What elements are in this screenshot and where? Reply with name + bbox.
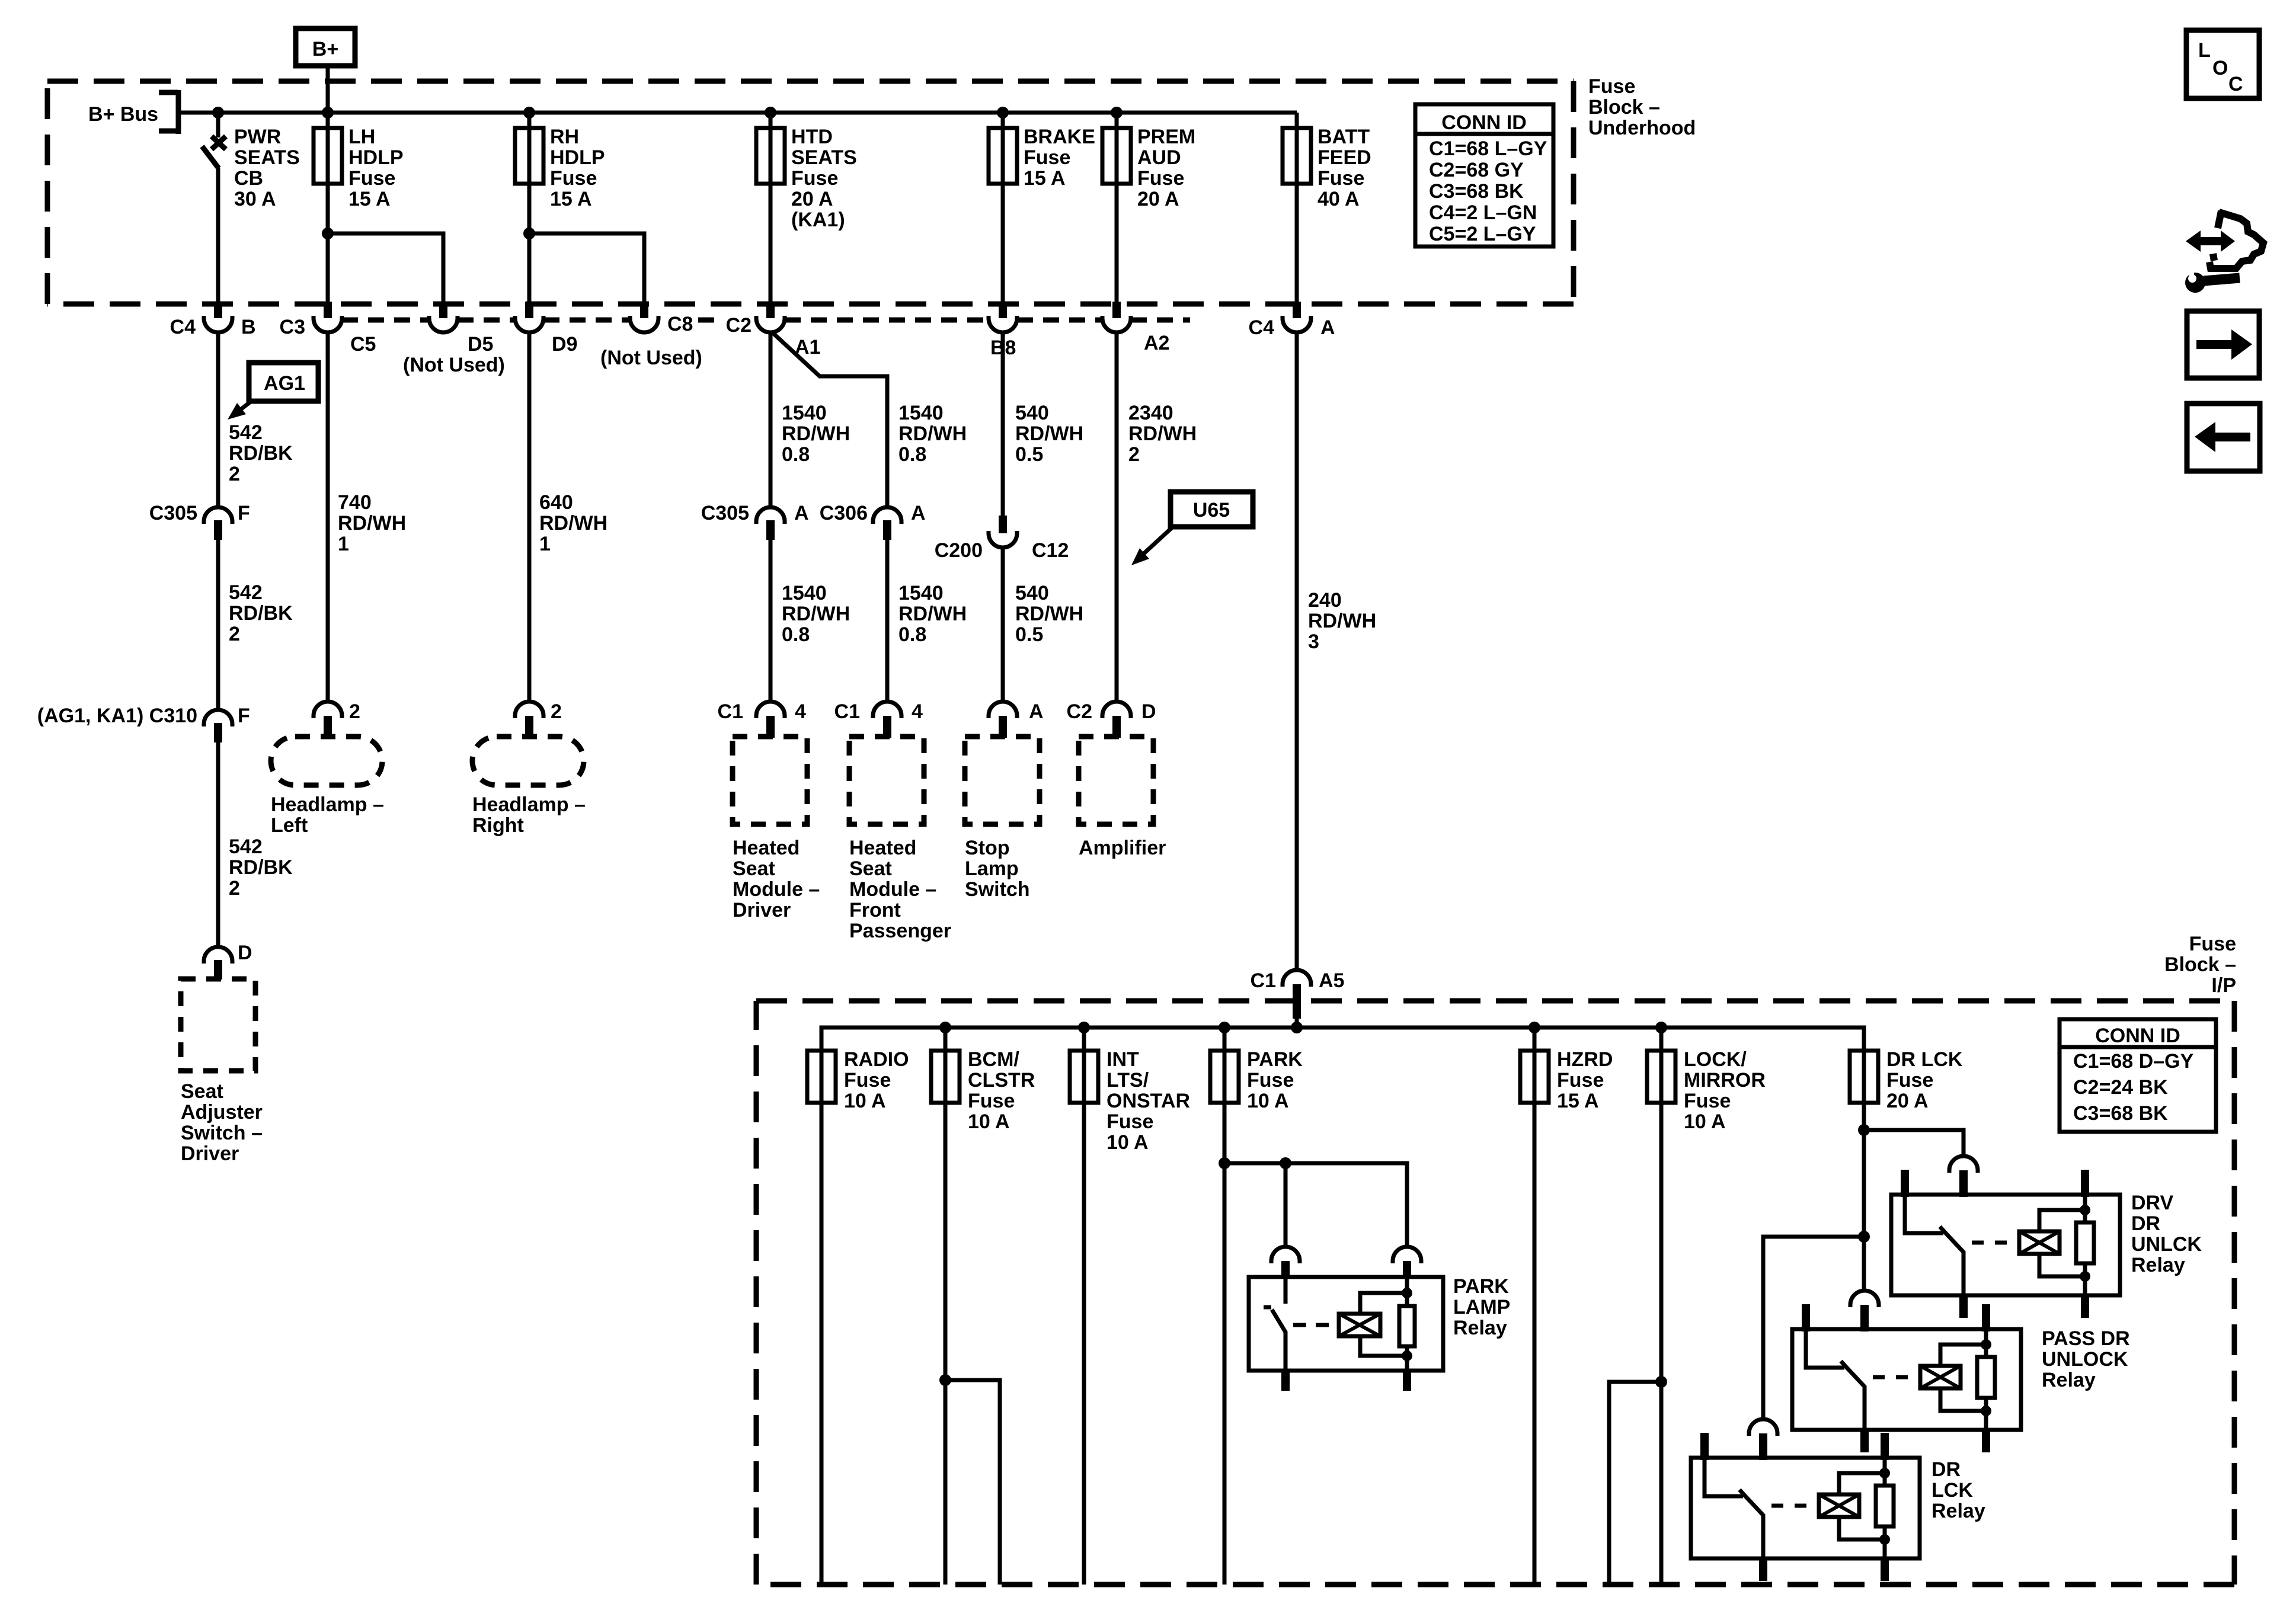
svg-text:0.5: 0.5	[1015, 623, 1043, 646]
svg-text:PREM: PREM	[1137, 126, 1195, 148]
label 2340 RD/WH 2	[1128, 402, 1197, 466]
connector headlamp right pin 2	[515, 700, 562, 738]
wire LOCK fuse down	[1659, 1028, 1664, 1585]
wire B8 to C200	[1001, 331, 1005, 516]
connector C305 pin F (inline)	[149, 502, 250, 540]
wire C200 to stop lamp switch	[1001, 546, 1005, 702]
svg-text:1540: 1540	[782, 402, 827, 424]
svg-text:Driver: Driver	[181, 1142, 239, 1165]
svg-text:Heated: Heated	[733, 837, 800, 859]
junction IP bus taps	[939, 1022, 1667, 1033]
svg-text:C5: C5	[350, 333, 376, 356]
svg-text:C3=68 BK: C3=68 BK	[1429, 180, 1524, 203]
label 542 RD/BK 2 (upper)	[229, 421, 293, 485]
svg-text:C8: C8	[667, 313, 693, 335]
svg-text:C5=2 L–GY: C5=2 L–GY	[1429, 223, 1536, 245]
svg-text:C4: C4	[170, 316, 196, 338]
svg-text:2340: 2340	[1128, 402, 1173, 424]
fuse HZRD 15A	[1520, 1048, 1613, 1112]
headlamp right box	[472, 737, 584, 785]
svg-text:RD/WH: RD/WH	[898, 603, 967, 625]
wire B+ to bus	[326, 66, 330, 113]
svg-text:4: 4	[795, 700, 806, 723]
svg-text:15 A: 15 A	[550, 188, 592, 210]
junction BCM branch	[939, 1374, 951, 1386]
svg-text:LTS/: LTS/	[1107, 1069, 1149, 1092]
svg-text:Adjuster: Adjuster	[181, 1101, 263, 1124]
svg-text:542: 542	[229, 421, 263, 444]
fuse PREM AUD 20A	[1102, 126, 1195, 210]
label 1540 RD/WH 0.8 (right upper)	[898, 402, 967, 466]
label stop lamp switch	[965, 837, 1030, 901]
label headlamp right	[472, 793, 586, 837]
label DR LCK relay	[1932, 1458, 1985, 1522]
wire LH HDLP fuse to C3	[326, 113, 330, 302]
label heated seat module driver	[733, 837, 820, 921]
svg-text:CLSTR: CLSTR	[968, 1069, 1035, 1092]
svg-text:Seat: Seat	[181, 1080, 223, 1103]
svg-text:SEATS: SEATS	[791, 146, 857, 169]
connector C3	[280, 302, 342, 338]
connector C1 pin A5	[1251, 969, 1345, 1019]
svg-text:Relay: Relay	[2131, 1254, 2185, 1276]
svg-text:HDLP: HDLP	[550, 146, 605, 169]
relay PARK LAMP	[1249, 1247, 1443, 1391]
svg-text:C1: C1	[834, 700, 860, 723]
svg-text:Fuse: Fuse	[844, 1069, 891, 1092]
svg-text:ONSTAR: ONSTAR	[1107, 1090, 1190, 1112]
fuse PARK 10A	[1210, 1048, 1303, 1112]
svg-text:HTD: HTD	[791, 126, 833, 148]
wire RADIO fuse down	[820, 1028, 824, 1585]
svg-text:LCK: LCK	[1932, 1479, 1973, 1502]
label 640 RD/WH 1	[539, 491, 607, 555]
label 240 RD/WH 3	[1308, 589, 1376, 653]
svg-text:1: 1	[338, 533, 349, 555]
svg-text:C3: C3	[280, 316, 305, 338]
connector pin D seat adjuster	[204, 942, 252, 980]
B+ bus wire	[178, 111, 1297, 115]
wire C1-A5 to IP bus	[1295, 1019, 1299, 1028]
svg-text:C2: C2	[726, 314, 752, 337]
heated seat module driver box	[733, 737, 807, 824]
wire BCM fuse down	[944, 1028, 948, 1585]
svg-text:D: D	[1141, 700, 1156, 723]
svg-text:RD/WH: RD/WH	[1015, 422, 1083, 445]
wire PARK relay feed	[1224, 1163, 1407, 1247]
svg-text:RD/BK: RD/BK	[229, 442, 293, 465]
svg-text:SEATS: SEATS	[234, 146, 300, 169]
svg-text:DR: DR	[1932, 1458, 1961, 1481]
svg-text:15 A: 15 A	[348, 188, 391, 210]
svg-text:2: 2	[229, 463, 240, 485]
svg-text:A: A	[1320, 316, 1335, 339]
svg-text:2: 2	[229, 623, 240, 645]
svg-text:C: C	[2228, 73, 2243, 95]
wire RH HDLP fuse to D9	[527, 113, 532, 302]
svg-text:10 A: 10 A	[968, 1110, 1010, 1133]
fuse block underhood dashed border	[47, 81, 1574, 304]
svg-text:C200: C200	[935, 539, 983, 562]
svg-text:A: A	[1029, 700, 1044, 723]
svg-text:RD/WH: RD/WH	[1128, 422, 1197, 445]
svg-text:AUD: AUD	[1137, 146, 1181, 169]
heated seat module passenger box	[849, 737, 924, 824]
back arrow icon box	[2187, 404, 2260, 471]
svg-text:542: 542	[229, 836, 263, 858]
svg-text:Fuse: Fuse	[1247, 1069, 1294, 1092]
svg-text:Headlamp –: Headlamp –	[472, 793, 586, 816]
svg-text:C4=2 L–GN: C4=2 L–GN	[1429, 201, 1537, 224]
connector A2	[1102, 302, 1169, 354]
svg-text:Seat: Seat	[849, 857, 892, 880]
wire A2 to amplifier	[1115, 331, 1119, 702]
connector D5 (not used)	[350, 302, 505, 376]
svg-text:C306: C306	[820, 502, 868, 524]
svg-text:RD/WH: RD/WH	[539, 512, 607, 534]
headlamp left box	[271, 737, 382, 785]
wire PARK fuse down	[1223, 1028, 1227, 1585]
connector C2 pin A1	[726, 302, 821, 359]
svg-text:LOCK/: LOCK/	[1684, 1048, 1747, 1071]
svg-text:Underhood: Underhood	[1588, 117, 1696, 139]
connector C4 pin B	[170, 302, 256, 338]
stop lamp switch box	[965, 737, 1040, 824]
wire D9 to headlamp right	[527, 331, 532, 702]
junction DRV relay feed	[1858, 1124, 1870, 1136]
svg-text:0.8: 0.8	[898, 623, 926, 646]
svg-text:BRAKE: BRAKE	[1024, 126, 1095, 148]
svg-text:RD/WH: RD/WH	[1308, 610, 1376, 632]
relay DRV DR UNLCK box	[1891, 1156, 2120, 1318]
fuse block IP dashed border	[756, 1001, 2234, 1585]
svg-text:LAMP: LAMP	[1453, 1296, 1510, 1318]
svg-text:Fuse: Fuse	[968, 1090, 1015, 1112]
svg-text:Fuse: Fuse	[1886, 1069, 1933, 1092]
svg-text:Module –: Module –	[733, 878, 820, 901]
junction LH branch	[322, 228, 334, 239]
wire HZRD fuse down	[1533, 1028, 1537, 1585]
svg-text:1540: 1540	[898, 402, 944, 424]
svg-text:Seat: Seat	[733, 857, 775, 880]
svg-text:PARK: PARK	[1247, 1048, 1303, 1071]
svg-text:30 A: 30 A	[234, 188, 276, 210]
svg-text:Lamp: Lamp	[965, 857, 1019, 880]
svg-text:0.8: 0.8	[782, 623, 810, 646]
svg-text:240: 240	[1308, 589, 1342, 612]
connector C8 (not used)	[600, 302, 702, 369]
junction DR LCK relay feed	[1858, 1231, 1870, 1243]
wire C306 to heated seat module passenger	[885, 537, 890, 702]
svg-text:RD/WH: RD/WH	[898, 422, 967, 445]
svg-text:C305: C305	[701, 502, 749, 524]
label 542 RD/BK 2 (middle)	[229, 581, 293, 645]
svg-text:20 A: 20 A	[1137, 188, 1179, 210]
wire branch to C8	[529, 233, 644, 302]
svg-text:MIRROR: MIRROR	[1684, 1069, 1766, 1092]
fuse DR LCK 20A	[1850, 1048, 1963, 1112]
wire C4-B to C305	[216, 331, 220, 506]
svg-text:540: 540	[1015, 582, 1049, 604]
svg-text:A5: A5	[1319, 969, 1344, 992]
svg-text:B+: B+	[312, 38, 338, 60]
label 540 RD/WH 0.5 (upper)	[1015, 402, 1083, 466]
wire C2 to C305 heated seat	[769, 331, 773, 508]
svg-text:10 A: 10 A	[844, 1090, 886, 1112]
svg-text:BCM/: BCM/	[968, 1048, 1019, 1071]
svg-text:1: 1	[539, 533, 551, 555]
svg-text:C12: C12	[1032, 539, 1069, 562]
label PARK LAMP relay	[1453, 1275, 1510, 1339]
svg-text:PASS DR: PASS DR	[2042, 1327, 2130, 1350]
svg-text:Passenger: Passenger	[849, 920, 951, 942]
svg-text:INT: INT	[1107, 1048, 1139, 1071]
fuse RADIO 10A	[807, 1048, 909, 1112]
svg-text:540: 540	[1015, 402, 1049, 424]
wire BCM branch down	[945, 1380, 1000, 1585]
svg-text:15 A: 15 A	[1024, 167, 1066, 190]
svg-text:Fuse: Fuse	[1557, 1069, 1604, 1092]
fuse INT LTS/ONSTAR 10A	[1070, 1048, 1190, 1154]
svg-text:Fuse: Fuse	[1684, 1090, 1731, 1112]
wire C305 to heated seat module driver	[769, 537, 773, 702]
svg-text:Driver: Driver	[733, 899, 791, 921]
svg-text:Block –: Block –	[2164, 953, 2236, 976]
svg-text:640: 640	[539, 491, 573, 514]
svg-text:2: 2	[349, 700, 360, 723]
svg-text:Fuse: Fuse	[1107, 1110, 1153, 1133]
fuse HTD SEATS 20A	[756, 126, 857, 231]
relay PASS DR UNLOCK box	[1792, 1291, 2021, 1452]
U65 callout box and arrow	[1131, 492, 1253, 565]
label 1540 RD/WH 0.8 (right lower)	[898, 582, 967, 646]
svg-text:F: F	[238, 502, 250, 524]
svg-text:1540: 1540	[898, 582, 944, 604]
label DRV DR UNLCK relay	[2131, 1192, 2202, 1276]
svg-text:U65: U65	[1193, 499, 1230, 521]
fuse BATT FEED 40A	[1283, 126, 1371, 210]
connector C310 pin F (AG1, KA1)	[37, 705, 250, 742]
svg-text:CB: CB	[234, 167, 263, 190]
svg-text:CONN ID: CONN ID	[1441, 111, 1527, 134]
LOC icon box	[2186, 30, 2259, 98]
amplifier box	[1079, 737, 1153, 824]
svg-text:C2=24 BK: C2=24 BK	[2073, 1076, 2168, 1099]
connector C2 pin D	[1067, 700, 1156, 738]
wire C2 branch to C306	[772, 332, 887, 508]
IP CONN ID table	[2060, 1019, 2216, 1132]
label headlamp left	[271, 793, 384, 837]
svg-text:I/P: I/P	[2211, 974, 2236, 997]
fuse LH HDLP 15A	[314, 126, 404, 210]
svg-text:Relay: Relay	[1932, 1500, 1985, 1522]
underhood CONN ID table	[1415, 104, 1553, 247]
svg-text:Fuse: Fuse	[2189, 933, 2236, 955]
svg-text:Front: Front	[849, 899, 901, 921]
wire INT LTS fuse down	[1082, 1028, 1086, 1585]
svg-text:Module –: Module –	[849, 878, 936, 901]
svg-text:Left: Left	[271, 814, 308, 837]
wire C3 to headlamp left	[326, 331, 330, 702]
svg-text:20 A: 20 A	[1886, 1090, 1929, 1112]
svg-text:A2: A2	[1144, 332, 1169, 354]
svg-text:PARK: PARK	[1453, 1275, 1509, 1298]
svg-text:CONN ID: CONN ID	[2095, 1025, 2180, 1047]
svg-text:4: 4	[912, 700, 923, 723]
svg-text:Amplifier: Amplifier	[1079, 837, 1166, 859]
svg-text:RD/WH: RD/WH	[782, 603, 850, 625]
svg-text:HZRD: HZRD	[1557, 1048, 1613, 1071]
fuse BRAKE 15A	[989, 126, 1095, 190]
svg-text:Fuse: Fuse	[550, 167, 597, 190]
wire LOCK branch down	[1609, 1382, 1661, 1585]
svg-text:(AG1, KA1) C310: (AG1, KA1) C310	[37, 705, 197, 727]
wire DRV relay feed	[1864, 1130, 1964, 1156]
connector C306 pin A	[820, 502, 926, 540]
svg-text:D: D	[238, 942, 252, 964]
wire PARK relay left pin drop	[1284, 1163, 1288, 1247]
svg-text:1540: 1540	[782, 582, 827, 604]
svg-text:C4: C4	[1249, 316, 1275, 339]
svg-text:10 A: 10 A	[1684, 1110, 1726, 1133]
wire branch to D5	[328, 233, 443, 302]
svg-text:B+ Bus: B+ Bus	[88, 103, 158, 126]
svg-text:Fuse: Fuse	[1024, 146, 1070, 169]
svg-text:2: 2	[229, 877, 240, 900]
fuse BCM/CLSTR 10A	[931, 1048, 1035, 1133]
wire DR LCK relay feed	[1763, 1237, 1864, 1419]
vehicle/wrench service icon	[2182, 211, 2263, 293]
svg-text:RD/WH: RD/WH	[782, 422, 850, 445]
label 1540 RD/WH 0.8 (left lower)	[782, 582, 850, 646]
svg-text:L: L	[2198, 39, 2211, 62]
svg-text:BATT: BATT	[1318, 126, 1370, 148]
connector C200 pin C12	[935, 516, 1069, 562]
connector C4 pin A	[1249, 302, 1335, 339]
svg-text:Fuse: Fuse	[1588, 75, 1635, 98]
wire C4-A to C1-A5	[1295, 331, 1299, 972]
circuit breaker PWR SEATS CB 30A	[202, 113, 226, 168]
svg-text:A: A	[911, 502, 926, 524]
label PASS DR UNLOCK relay	[2042, 1327, 2130, 1391]
svg-text:0.8: 0.8	[898, 443, 926, 466]
B+ power symbol	[296, 28, 355, 66]
svg-text:(KA1): (KA1)	[791, 209, 845, 231]
svg-text:(Not Used): (Not Used)	[403, 354, 505, 376]
svg-text:RADIO: RADIO	[844, 1048, 909, 1071]
label 542 RD/BK 2 (lower)	[229, 836, 293, 900]
svg-text:Fuse: Fuse	[1318, 167, 1364, 190]
wire C310 to seat adjuster switch	[216, 742, 220, 947]
connector C1 pin 4 (driver)	[718, 700, 806, 738]
svg-text:UNLOCK: UNLOCK	[2042, 1348, 2128, 1371]
connector stop lamp pin A	[989, 700, 1044, 738]
svg-text:20 A: 20 A	[791, 188, 833, 210]
svg-text:LH: LH	[348, 126, 375, 148]
svg-text:C1=68 L–GY: C1=68 L–GY	[1429, 137, 1547, 160]
svg-text:RD/WH: RD/WH	[338, 512, 406, 534]
svg-text:DR LCK: DR LCK	[1886, 1048, 1963, 1071]
svg-text:40 A: 40 A	[1318, 188, 1360, 210]
svg-text:C3=68 BK: C3=68 BK	[2073, 1102, 2168, 1125]
svg-text:Switch –: Switch –	[181, 1122, 263, 1144]
label 540 RD/WH 0.5 (lower)	[1015, 582, 1083, 646]
wire C305 to C310	[216, 540, 220, 710]
svg-text:RD/WH: RD/WH	[1015, 603, 1083, 625]
svg-text:RD/BK: RD/BK	[229, 856, 293, 879]
AG1 callout box and arrow	[228, 363, 318, 420]
B+ Bus label and bracket	[88, 90, 178, 134]
svg-text:0.5: 0.5	[1015, 443, 1043, 466]
junction RH branch	[523, 228, 535, 239]
svg-text:O: O	[2212, 57, 2228, 79]
svg-text:Fuse: Fuse	[348, 167, 395, 190]
svg-text:C1=68 D–GY: C1=68 D–GY	[2073, 1050, 2193, 1073]
svg-text:Switch: Switch	[965, 878, 1030, 901]
svg-text:542: 542	[229, 581, 263, 604]
svg-text:C2=68 GY: C2=68 GY	[1429, 159, 1524, 181]
svg-text:DRV: DRV	[2131, 1192, 2173, 1214]
junction PARK relay feed	[1219, 1157, 1230, 1169]
svg-text:2: 2	[1128, 443, 1140, 466]
svg-text:10 A: 10 A	[1107, 1131, 1149, 1154]
svg-text:D9: D9	[552, 333, 577, 356]
svg-text:10 A: 10 A	[1247, 1090, 1289, 1112]
connector C1 pin 4 (passenger)	[834, 700, 923, 738]
connector D9	[515, 302, 577, 356]
svg-text:FEED: FEED	[1318, 146, 1371, 169]
wire CB to C4	[216, 168, 220, 302]
junction LOCK branch	[1655, 1376, 1667, 1388]
wire HTD SEATS fuse to C2	[769, 113, 773, 302]
forward arrow icon box	[2187, 311, 2259, 378]
connector interface dashed line row	[342, 318, 1190, 323]
svg-text:Fuse: Fuse	[791, 167, 838, 190]
label PWR SEATS CB 30A	[234, 126, 300, 210]
svg-text:C1: C1	[1251, 969, 1276, 992]
svg-text:C305: C305	[149, 502, 197, 524]
svg-text:Headlamp –: Headlamp –	[271, 793, 384, 816]
wire BATT FEED fuse to C4	[1295, 113, 1299, 302]
connector B8	[989, 302, 1017, 359]
wire DR LCK fuse down	[1862, 1028, 1866, 1291]
svg-text:Fuse: Fuse	[1137, 167, 1184, 190]
svg-text:3: 3	[1308, 630, 1319, 653]
label 1540 RD/WH 0.8 (left upper)	[782, 402, 850, 466]
svg-text:0.8: 0.8	[782, 443, 810, 466]
svg-text:2: 2	[551, 700, 562, 723]
fuse block underhood title	[1588, 75, 1696, 139]
svg-text:A: A	[794, 502, 809, 524]
svg-text:Stop: Stop	[965, 837, 1010, 859]
junction PARK relay left pin	[1280, 1157, 1291, 1169]
svg-text:HDLP: HDLP	[348, 146, 404, 169]
svg-text:PWR: PWR	[234, 126, 281, 148]
svg-text:Relay: Relay	[1453, 1317, 1507, 1339]
svg-text:Right: Right	[472, 814, 524, 837]
fuse block IP title	[2164, 933, 2236, 997]
svg-text:F: F	[238, 705, 250, 727]
svg-text:(Not Used): (Not Used)	[600, 347, 702, 369]
connector headlamp left pin 2	[314, 700, 360, 738]
label seat adjuster switch driver	[181, 1080, 263, 1165]
relay DR LCK box	[1691, 1419, 1920, 1581]
svg-text:DR: DR	[2131, 1212, 2160, 1235]
svg-text:B: B	[241, 316, 256, 338]
svg-text:C2: C2	[1067, 700, 1092, 723]
svg-text:RH: RH	[550, 126, 579, 148]
svg-text:Heated: Heated	[849, 837, 916, 859]
